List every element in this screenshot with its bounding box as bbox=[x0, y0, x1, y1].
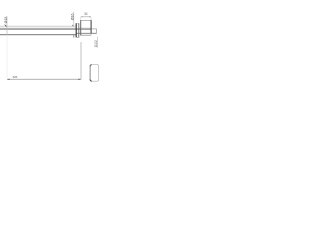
through-bore band in body bbox=[79, 27, 91, 29]
right dimension arrow bbox=[72, 24, 74, 26]
rail tube fill (side view) bbox=[0, 26, 76, 29]
svg-text:625: 625 bbox=[13, 75, 18, 79]
wall body right edge lower bbox=[90, 34, 92, 36]
wall body left edge bbox=[80, 20, 82, 35]
svg-text:Ø18: Ø18 bbox=[4, 17, 8, 24]
dim 625 left extension bbox=[6, 35, 8, 79]
stub top edge bbox=[91, 28, 96, 30]
left diameter dimension line bbox=[6, 16, 8, 35]
dim 34 arrows bbox=[81, 16, 83, 17]
escutcheon corner accent bottom-left bbox=[90, 79, 92, 81]
dim 625 line bbox=[7, 78, 81, 80]
escutcheon front view outline bbox=[90, 65, 99, 82]
bore bottom line bbox=[76, 32, 97, 34]
background bbox=[0, 0, 100, 100]
wall body fill bbox=[80, 20, 91, 36]
wall body bottom edge bbox=[81, 34, 92, 36]
escutcheon corner accent top-left bbox=[90, 65, 92, 67]
dim 34 line bbox=[81, 16, 91, 18]
flange ring bottom edge bbox=[76, 36, 80, 38]
dim 625 arrows bbox=[7, 79, 10, 81]
rail tube bottom edge bbox=[0, 28, 91, 30]
flange ring right edge bbox=[78, 23, 80, 37]
flange ring left edge bbox=[75, 23, 77, 37]
wall body top edge bbox=[81, 19, 92, 21]
right diameter dimension line bbox=[73, 12, 75, 26]
wall body right edge bbox=[90, 20, 92, 33]
G1/2 leader line bbox=[97, 37, 99, 48]
right dimension tick below wall bbox=[73, 35, 75, 38]
svg-text:Ø16: Ø16 bbox=[71, 14, 75, 21]
svg-text:G1/2: G1/2 bbox=[94, 40, 98, 47]
stub right edge bbox=[96, 29, 98, 33]
flange ring top edge bbox=[76, 23, 80, 25]
dim 625 right extension bbox=[80, 42, 82, 80]
left dimension arrow bbox=[4, 24, 7, 27]
escutcheon front left edge bbox=[89, 66, 91, 80]
dim 34 extension ticks bbox=[80, 17, 82, 20]
svg-text:34: 34 bbox=[84, 12, 88, 16]
wall line bbox=[0, 34, 76, 36]
rail tube top edge bbox=[0, 25, 76, 27]
